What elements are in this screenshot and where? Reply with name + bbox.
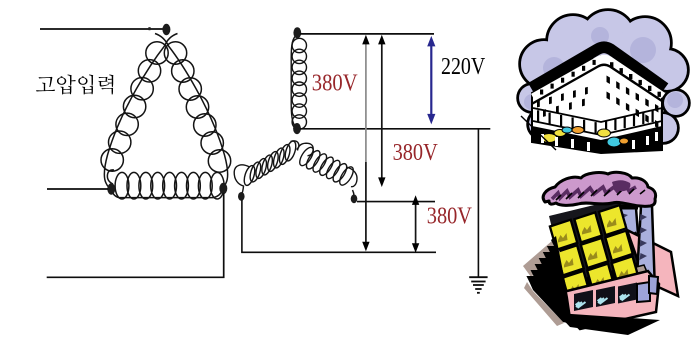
wire: chevron left terminal down to bottom line: [242, 200, 436, 252]
dim arrow: 380V top line to bottom line: [365, 43, 367, 162]
winding W5: secondary chevron left coil: [234, 140, 299, 195]
roof plane: [549, 197, 651, 297]
wire: top secondary line: [300, 33, 434, 35]
node: chevron right terminal: [351, 194, 358, 203]
node: secondary coil top terminal: [293, 27, 301, 38]
dim arrow: 220V blue: [430, 44, 432, 116]
node: chevron left terminal: [238, 192, 245, 201]
wire: input line to bottom-left: [47, 188, 108, 190]
ground symbol: [469, 277, 487, 293]
dim arrow: 380V top line to mid level: [381, 43, 383, 178]
winding W3: delta bottom coil: [107, 170, 224, 199]
svg-text:380V: 380V: [312, 70, 358, 97]
wire: chevron right phase line: [357, 201, 435, 203]
node: delta bottom-left terminal: [107, 183, 115, 194]
node: delta apex terminal: [162, 24, 170, 35]
label: 고압입력 (HV input): [36, 75, 113, 95]
wire: neutral line from coil bottom to right: [300, 128, 490, 130]
truss stand: [618, 232, 639, 246]
wire: ground drop line: [477, 129, 479, 277]
wire: input line to delta apex: [40, 28, 163, 30]
wire: input line from bottom-right, down and left: [47, 193, 224, 277]
winding W2: delta right side coil: [155, 34, 231, 189]
dim arrow: 380V lower phase lines: [415, 203, 417, 245]
node: secondary coil bottom terminal: [293, 123, 301, 134]
svg-text:220V: 220V: [441, 53, 486, 80]
svg-text:380V: 380V: [427, 202, 473, 229]
winding W1: delta left side coil: [101, 34, 178, 190]
clipart: factory: [523, 172, 678, 335]
svg-text:380V: 380V: [393, 139, 439, 166]
skylights 3x3: [550, 205, 639, 301]
chimney 2: [637, 206, 655, 277]
clipart: office building with clouds: [519, 11, 688, 153]
smoke band: [543, 172, 655, 206]
node: delta bottom-right terminal: [219, 183, 227, 194]
winding W4: secondary vertical coil: [291, 34, 306, 129]
chimney 1: [618, 208, 638, 234]
winding W6: secondary chevron right coil: [297, 143, 357, 196]
